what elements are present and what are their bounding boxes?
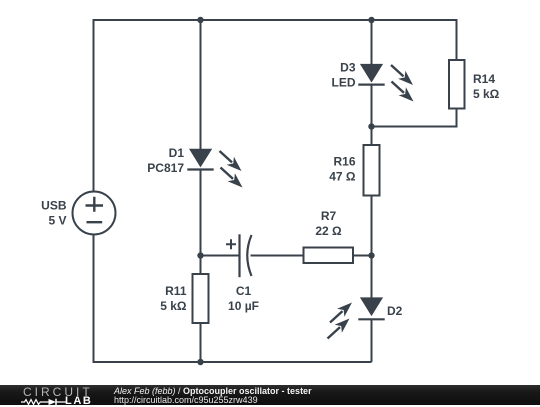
wire: R7 right lead: [353, 255, 372, 257]
wire: bottom rail from D2 across to USB - terminal: [94, 235, 372, 363]
voltage source V1 USB 5V: [73, 192, 116, 235]
svg-text:PC817: PC817: [147, 161, 184, 175]
wire: D3 cathode lead down to junction: [371, 85, 373, 127]
resistor R16: [364, 145, 380, 196]
CircuitLab logo: [23, 387, 93, 397]
node: junction D3 cathode / R14 / R16: [368, 123, 374, 129]
node: junction D1 cathode / C1 / R11: [197, 252, 203, 258]
svg-text:R14: R14: [473, 72, 495, 86]
resistor R14: [449, 60, 465, 109]
wire: D2 top lead: [371, 256, 373, 299]
label R11 5 kOhm: [160, 284, 187, 313]
svg-text:USB: USB: [41, 199, 67, 213]
svg-text:R11: R11: [165, 284, 187, 298]
wire: R14 bottom lead across to D3 cathode node: [372, 109, 457, 127]
wire: R16 bottom lead to middle node: [371, 196, 373, 256]
label USB 5 V: [41, 199, 67, 228]
wire: D1 top lead from top rail: [200, 20, 202, 150]
wire: R16 top lead: [371, 127, 373, 146]
photodiode D2: [328, 297, 385, 338]
svg-text:D2: D2: [387, 304, 403, 318]
label R14 5 kOhm: [473, 72, 500, 101]
optocoupler LED D1 (PC817): [187, 149, 242, 188]
svg-text:LED: LED: [332, 76, 356, 90]
capacitor C1 polarized: [226, 234, 252, 277]
wire: D3 top lead from top rail: [371, 20, 373, 65]
svg-text:D1: D1: [169, 146, 185, 160]
footer bar: [0, 385, 540, 406]
svg-text:5 kΩ: 5 kΩ: [473, 87, 500, 101]
node: junction R11 bottom / bottom rail: [197, 359, 203, 365]
svg-text:47 Ω: 47 Ω: [329, 170, 356, 184]
label R16 47 Ohm: [329, 155, 356, 184]
LED D3: [358, 64, 413, 102]
resistor R11: [193, 274, 209, 323]
label D2: [387, 304, 403, 318]
svg-text:D3: D3: [340, 61, 356, 75]
wire: D2 cathode lead down to bottom rail: [371, 319, 373, 362]
label C1 10 uF: [228, 284, 259, 313]
wire: top rail from USB + terminal up, across to R14 top lead: [94, 20, 457, 192]
wire: R11 bottom lead: [200, 323, 202, 362]
wire: R11 top lead: [200, 256, 202, 275]
svg-text:10 µF: 10 µF: [228, 299, 259, 313]
wire: C1 left lead: [201, 255, 240, 257]
svg-text:C1: C1: [236, 284, 252, 298]
svg-text:5 kΩ: 5 kΩ: [160, 299, 187, 313]
svg-text:22 Ω: 22 Ω: [315, 224, 342, 238]
label D1 PC817: [147, 146, 184, 175]
resistor R7: [304, 248, 354, 264]
credit text: [114, 387, 312, 406]
svg-text:5 V: 5 V: [48, 214, 66, 228]
logo schematic glyph: resistor zigzag and diode: [21, 397, 67, 407]
node: junction top rail / D3: [368, 17, 374, 23]
node: junction top rail / D1: [197, 17, 203, 23]
node: junction R16 / R7 / D2: [368, 252, 374, 258]
svg-text:R7: R7: [321, 209, 337, 223]
wire: C1 right lead to R7 left lead: [251, 255, 304, 257]
label D3 LED: [332, 61, 356, 90]
wire: D1 cathode lead down to C1/R11 node: [200, 170, 202, 256]
label R7 22 Ohm: [315, 209, 342, 238]
svg-text:R16: R16: [333, 155, 355, 169]
